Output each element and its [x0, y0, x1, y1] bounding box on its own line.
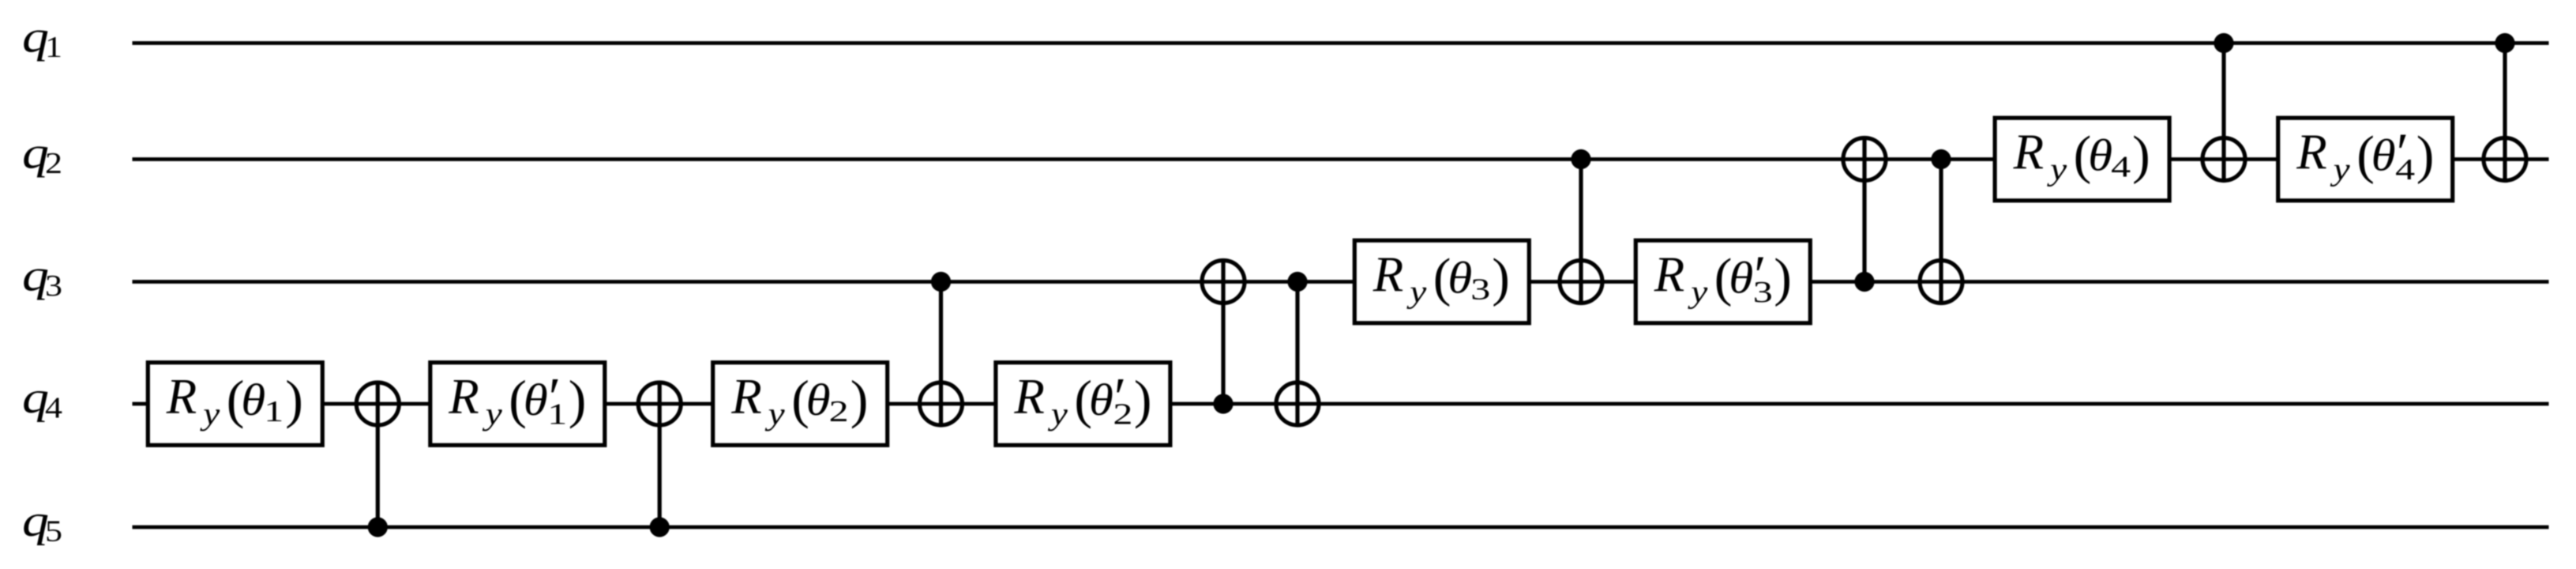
svg-text:2: 2 — [829, 395, 849, 428]
svg-text:R: R — [2296, 125, 2326, 180]
node qubit label q4 — [22, 373, 62, 425]
node CNOT-j target XOR circle on q2 — [2484, 138, 2526, 181]
gate G3 Ry(theta_2) on q4 — [713, 363, 888, 446]
wire q1 horizontal — [133, 41, 2549, 45]
node CNOT-b target XOR circle on q4 — [638, 382, 681, 425]
gate G1 Ry(theta_1) on q4 — [148, 363, 322, 446]
svg-text:y: y — [482, 396, 502, 431]
svg-text:4: 4 — [2395, 153, 2415, 187]
svg-text:5: 5 — [45, 515, 62, 548]
wire CNOT-a vertical control line q5-q4 — [376, 381, 380, 527]
svg-text:R: R — [1013, 369, 1044, 424]
node CNOT-a control dot on q5 — [368, 517, 388, 537]
svg-text:): ) — [2416, 125, 2435, 185]
svg-text:): ) — [1134, 369, 1152, 429]
svg-text:1: 1 — [547, 398, 567, 431]
wire CNOT-f vertical control line q2-q3 — [1579, 160, 1583, 305]
svg-text:3: 3 — [1470, 273, 1490, 307]
svg-text:1: 1 — [45, 31, 62, 64]
gate G2 Ry(theta'_1) on q4 — [430, 363, 605, 446]
svg-text:): ) — [2132, 125, 2150, 185]
svg-text:R: R — [1372, 247, 1403, 303]
node CNOT-i target XOR circle on q2 — [2202, 138, 2245, 181]
node CNOT-a target XOR circle on q4 — [356, 382, 399, 425]
svg-text:4: 4 — [45, 392, 62, 425]
svg-text:θ: θ — [241, 375, 265, 425]
svg-text:θ: θ — [1089, 375, 1113, 425]
gate G4 Ry(theta'_2) on q4 — [996, 363, 1170, 446]
gate G8 Ry(theta'_4) on q2 — [2278, 118, 2453, 201]
gate G6 Ry(theta'_3) on q3 — [1635, 240, 1810, 323]
svg-text:y: y — [1688, 274, 1708, 310]
svg-text:θ: θ — [524, 375, 548, 425]
node CNOT-g control dot on q3 — [1854, 272, 1874, 292]
wire q5 horizontal — [133, 526, 2549, 529]
svg-text:2: 2 — [45, 147, 62, 180]
node CNOT-j control dot on q1 — [2495, 33, 2514, 53]
svg-text:2: 2 — [1113, 398, 1132, 431]
wire q3 horizontal — [133, 280, 2549, 284]
node CNOT-f control dot on q2 — [1571, 149, 1590, 169]
svg-text:y: y — [764, 396, 785, 431]
wire q2 horizontal — [133, 157, 2549, 161]
svg-text:y: y — [2330, 152, 2350, 187]
node CNOT-e target XOR circle on q4 — [1276, 382, 1319, 425]
wire CNOT-g vertical control line q3-q2 — [1862, 136, 1866, 281]
svg-text:y: y — [200, 396, 220, 431]
node qubit label q2 — [22, 129, 62, 181]
node CNOT-i control dot on q1 — [2214, 33, 2233, 53]
svg-text:y: y — [1047, 396, 1068, 431]
svg-text:R: R — [730, 369, 761, 424]
wire CNOT-i vertical control line q1-q2 — [2221, 43, 2225, 183]
svg-text:R: R — [166, 369, 197, 424]
svg-text:3: 3 — [1753, 276, 1773, 309]
svg-text:θ: θ — [806, 375, 831, 425]
wire q4 horizontal — [133, 402, 2549, 406]
wire CNOT-c vertical control line q3-q4 — [939, 282, 943, 428]
node CNOT-h control dot on q2 — [1931, 149, 1951, 169]
svg-text:y: y — [1406, 274, 1427, 310]
node CNOT-e control dot on q3 — [1287, 272, 1307, 292]
svg-text:): ) — [285, 369, 303, 429]
svg-text:θ: θ — [2088, 131, 2112, 181]
node CNOT-h target XOR circle on q3 — [1920, 261, 1962, 303]
svg-text:3: 3 — [45, 269, 62, 303]
node CNOT-d target XOR circle on q3 — [1202, 261, 1245, 303]
svg-text:R: R — [1654, 247, 1684, 303]
svg-text:R: R — [2013, 125, 2044, 180]
gate G5 Ry(theta_3) on q3 — [1354, 240, 1529, 323]
svg-text:): ) — [1492, 247, 1510, 307]
wire CNOT-j vertical control line q1-q2 — [2503, 43, 2507, 183]
svg-text:): ) — [1774, 247, 1792, 307]
svg-text:y: y — [2046, 152, 2067, 187]
svg-text:θ: θ — [2371, 131, 2396, 181]
node CNOT-f target XOR circle on q3 — [1560, 261, 1602, 303]
svg-text:): ) — [851, 369, 869, 429]
svg-text:θ: θ — [1448, 254, 1472, 303]
wire CNOT-b vertical control line q5-q4 — [658, 381, 662, 527]
node qubit label q1 — [22, 13, 62, 65]
wire CNOT-e vertical control line q3-q4 — [1295, 282, 1299, 428]
svg-text:R: R — [448, 369, 479, 424]
gate G7 Ry(theta_4) on q2 — [1995, 118, 2169, 201]
node CNOT-g target XOR circle on q2 — [1843, 138, 1886, 181]
node CNOT-c control dot on q3 — [931, 272, 951, 292]
node qubit label q5 — [22, 496, 62, 548]
node CNOT-c target XOR circle on q4 — [920, 382, 963, 425]
node CNOT-b control dot on q5 — [650, 517, 670, 537]
node qubit label q3 — [22, 251, 62, 303]
svg-text:): ) — [569, 369, 587, 429]
wire CNOT-h vertical control line q2-q3 — [1939, 160, 1943, 305]
svg-text:1: 1 — [264, 395, 284, 428]
svg-text:θ: θ — [1729, 254, 1753, 303]
node CNOT-d control dot on q4 — [1213, 394, 1233, 413]
wire CNOT-d vertical control line q4-q3 — [1221, 258, 1225, 404]
svg-text:4: 4 — [2111, 151, 2131, 184]
